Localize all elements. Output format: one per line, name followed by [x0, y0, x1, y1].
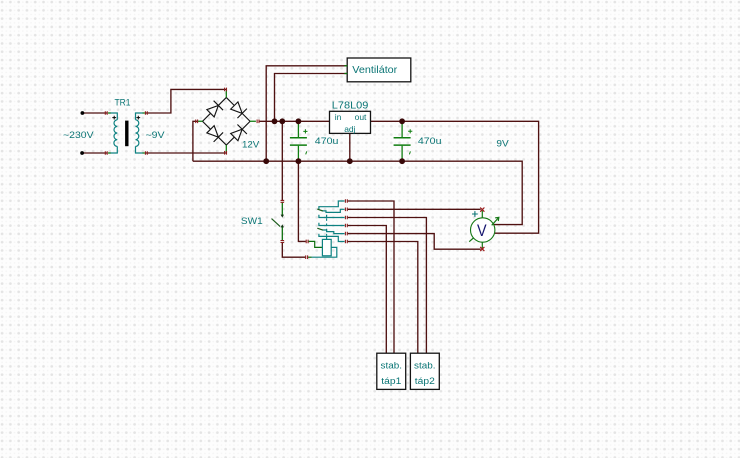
svg-text:~9V: ~9V	[146, 129, 166, 140]
svg-text:12V: 12V	[242, 139, 260, 150]
svg-text:TR1: TR1	[115, 98, 131, 108]
svg-text:in: in	[335, 112, 342, 122]
svg-text:9V: 9V	[496, 138, 509, 149]
svg-text:táp2: táp2	[415, 376, 435, 387]
svg-text:V: V	[477, 221, 487, 240]
svg-text:470u: 470u	[315, 135, 339, 146]
svg-text:stab.: stab.	[414, 361, 436, 372]
svg-text:L78L09: L78L09	[332, 101, 369, 112]
svg-text:470u: 470u	[418, 135, 442, 146]
svg-text:~230V: ~230V	[63, 129, 94, 140]
svg-text:SW1: SW1	[241, 215, 263, 226]
svg-text:Ventilátor: Ventilátor	[352, 65, 398, 76]
svg-text:stab.: stab.	[381, 361, 403, 372]
svg-text:táp1: táp1	[381, 376, 401, 387]
svg-text:out: out	[355, 112, 367, 122]
svg-text:adj: adj	[344, 124, 355, 134]
